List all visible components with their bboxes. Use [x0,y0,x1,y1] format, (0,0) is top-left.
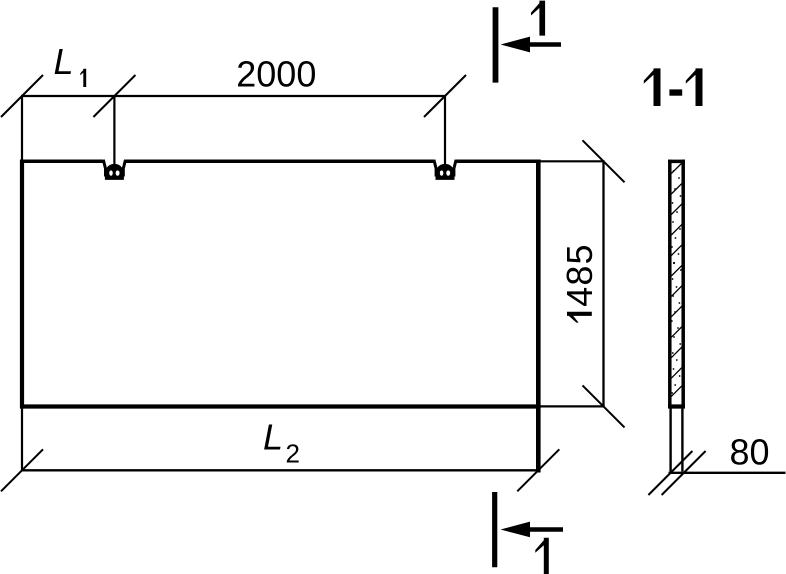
80 dimension line [669,472,786,474]
lifting loop recess 2 walls [434,160,456,177]
section cut line top [493,7,499,82]
extension line left (x=22) [21,96,23,160]
extension line loop2 (x=445) [444,96,446,177]
tick at (670.4,473) [648,451,692,495]
label 1 top [531,1,545,36]
section arrow top [501,37,531,53]
section view label 1-1 [644,68,661,106]
section arrow bottom [501,522,531,538]
lifting loop 2 white openings [440,170,444,176]
tick at (603.5,406.4) [583,385,625,427]
panel front view: top edge [20,159,541,163]
tick at (22,96) [1,75,43,117]
1485 extension line bottom [541,405,605,407]
tick at (445,96) [424,75,466,117]
L2 extension line left [21,409,23,472]
tick at (114.4,96) [93,75,135,117]
section view lower strip: left edge [669,409,671,472]
section view strip: bottom thick band [668,404,685,408]
svg-text:80: 80 [729,431,769,472]
tick at (538.3,470.3) [517,449,559,491]
recess 2 floor [436,176,455,180]
1485 extension line top [541,160,605,162]
svg-text:2: 2 [286,438,300,468]
section view strip: concrete dots [671,170,682,394]
section view strip: right edge [681,160,685,409]
section view strip: hatching [671,163,682,396]
panel front view: left edge [20,160,24,409]
section view strip: top edge [668,160,685,164]
panel front view: right edge (extends down to L2 line) [536,160,541,473]
svg-text:2000: 2000 [236,54,316,95]
lifting loop 1 arch (filled dome) [106,164,123,178]
label 1485 (rotated) [559,243,600,322]
panel front view: bottom thick edge [20,404,541,408]
L2 dimension line [21,469,539,471]
tick at (603.5,161.3) [583,140,625,182]
lifting loop 1 white openings [109,170,113,176]
lifting loop 2 arch (filled dome) [437,164,454,178]
top dimension line [21,95,445,97]
label 1 bottom [535,538,549,574]
svg-text:L: L [263,417,283,458]
section cut line bottom [492,492,497,567]
lifting loop recess 1 walls [103,160,125,177]
svg-text:L: L [54,41,74,82]
extension line loop1 (x=114.4) [113,96,115,177]
tick at (22,470.3) [1,449,43,491]
1485 dimension line [602,161,604,406]
tick at (683.6,473) [662,451,706,495]
section view strip: left edge [668,160,672,409]
section view lower strip: right edge [681,409,683,472]
recess 1 floor [105,176,124,180]
svg-text:485: 485 [559,243,600,307]
